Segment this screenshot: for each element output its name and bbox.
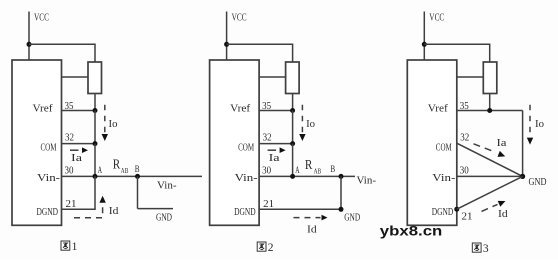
svg-text:30: 30 xyxy=(262,166,271,177)
current arrow Io dashed (fig2) xyxy=(301,105,303,133)
svg-text:Ia: Ia xyxy=(71,153,83,164)
pin 32 lead (fig2) xyxy=(259,143,293,145)
wire node pin32 to node A (fig2) xyxy=(292,144,294,177)
svg-text:VCC: VCC xyxy=(429,12,444,23)
wire VCC supply lead (fig1) xyxy=(28,12,30,61)
svg-text:35: 35 xyxy=(262,101,271,112)
current arrow Id dashed (fig2) xyxy=(294,217,321,219)
svg-text:32: 32 xyxy=(65,133,74,144)
svg-text:32: 32 xyxy=(460,133,469,144)
IC block U1 (fig1) xyxy=(12,60,62,225)
svg-text:R: R xyxy=(113,157,121,172)
pin 35 lead (fig1) xyxy=(62,110,96,112)
wire IC to resistor left (fig2) xyxy=(259,76,286,78)
svg-text:A: A xyxy=(295,166,299,176)
caption fig1 xyxy=(61,241,70,250)
IC block U2 (fig2) xyxy=(210,60,260,225)
svg-text:Vin-: Vin- xyxy=(37,173,61,184)
DGND pin dot (fig3) xyxy=(454,207,459,212)
wire node pin35 to pin32 (fig2) xyxy=(292,111,294,144)
svg-text:COM: COM xyxy=(436,142,452,153)
svg-text:21: 21 xyxy=(462,212,473,223)
svg-text:Vin-: Vin- xyxy=(357,176,377,187)
GND node dot (fig3) xyxy=(520,174,525,179)
wire IC to resistor left (fig1) xyxy=(62,76,89,78)
svg-text:AB: AB xyxy=(121,166,129,175)
pin 32 diagonal wire to GND (fig3) xyxy=(457,143,522,176)
svg-text:Vref: Vref xyxy=(230,104,251,115)
svg-text:Vin-: Vin- xyxy=(432,173,456,184)
resistor R1 (fig1) xyxy=(88,62,102,94)
wire VCC supply lead (fig2) xyxy=(226,12,228,61)
svg-text:AB: AB xyxy=(314,167,322,176)
svg-text:35: 35 xyxy=(460,101,469,112)
pin 32 lead (fig1) xyxy=(62,143,96,145)
svg-text:21: 21 xyxy=(263,199,274,210)
pin 35 lead (fig2) xyxy=(259,110,293,112)
right rail wire down to GND (fig3) xyxy=(522,111,524,177)
svg-text:VCC: VCC xyxy=(232,12,247,23)
junction dot resistor node (fig3) xyxy=(487,108,492,113)
svg-text:30: 30 xyxy=(460,166,469,177)
svg-text:DGND: DGND xyxy=(432,207,454,218)
junction dot pin 35 node (fig1) xyxy=(93,108,98,113)
svg-text:B: B xyxy=(330,165,335,175)
svg-text:DGND: DGND xyxy=(234,207,256,218)
wire resistor bottom to pin 35 (fig1) xyxy=(94,94,96,111)
node A dot (fig1) xyxy=(93,174,98,179)
current arrow Io dashed (fig1) xyxy=(104,105,106,133)
svg-text:GND: GND xyxy=(344,213,360,224)
svg-text:VCC: VCC xyxy=(34,12,49,23)
svg-text:Vref: Vref xyxy=(428,104,449,115)
svg-text:ybx8.cn: ybx8.cn xyxy=(380,223,443,238)
svg-text:GND: GND xyxy=(156,213,172,224)
wire node B down (fig1) xyxy=(137,176,139,208)
svg-text:35: 35 xyxy=(65,101,74,112)
svg-text:Io: Io xyxy=(109,119,118,130)
svg-text:Ia: Ia xyxy=(497,138,508,149)
svg-text:30: 30 xyxy=(65,166,74,177)
wire to GND stub (fig1) xyxy=(138,208,174,210)
svg-text:21: 21 xyxy=(66,199,77,210)
wire node A down to pin 21 (fig1) xyxy=(94,176,96,209)
wire resistor bottom to pin 35 (fig3) xyxy=(489,94,491,111)
wire node pin32 to node A (fig1) xyxy=(94,144,96,177)
node B dot (fig2) xyxy=(339,174,344,179)
wire IC to resistor left (fig3) xyxy=(457,76,484,78)
wire resistor bottom to pin 35 (fig2) xyxy=(292,94,294,111)
pin 30 lead and R_AB wire (fig1) xyxy=(62,175,203,177)
GND node dot (fig2) xyxy=(339,207,344,212)
svg-text:Io: Io xyxy=(306,119,315,130)
wire VCC to resistor top (fig1) xyxy=(29,44,95,62)
svg-text:Vin-: Vin- xyxy=(235,173,259,184)
svg-text:Id: Id xyxy=(498,209,508,220)
svg-text:Id: Id xyxy=(307,225,317,236)
svg-text:Vin-: Vin- xyxy=(157,180,177,191)
caption fig3 xyxy=(472,243,481,252)
svg-text:A: A xyxy=(98,166,102,176)
wire node pin35 to pin32 (fig1) xyxy=(94,111,96,144)
wire VCC to resistor top (fig3) xyxy=(424,44,489,62)
current arrow Ia dashed (fig1) xyxy=(70,149,79,151)
svg-text:B: B xyxy=(135,165,140,175)
resistor R3 (fig3) xyxy=(483,62,497,94)
IC block U3 (fig3) xyxy=(407,60,457,225)
caption fig2 xyxy=(257,242,266,251)
current arrow Io dashed (fig3) xyxy=(529,105,531,137)
pin 21 lead (fig1) xyxy=(62,208,96,210)
current arrow Ia dashed (fig3) xyxy=(474,144,497,153)
svg-text:DGND: DGND xyxy=(37,207,59,218)
svg-text:COM: COM xyxy=(41,142,57,153)
svg-text:COM: COM xyxy=(238,142,254,153)
svg-text:3: 3 xyxy=(483,243,489,255)
pin 30 lead to GND node (fig3) xyxy=(457,175,523,177)
junction dot VCC node (fig2) xyxy=(224,42,229,47)
junction dot pin 32 node (fig2) xyxy=(290,141,295,146)
pin 21 lead to GND node (fig2) xyxy=(259,208,341,210)
junction dot pin 35 node (fig2) xyxy=(290,108,295,113)
svg-text:32: 32 xyxy=(263,133,272,144)
svg-text:Io: Io xyxy=(535,119,544,130)
svg-text:GND: GND xyxy=(529,177,547,188)
svg-text:R: R xyxy=(305,157,313,172)
node A dot (fig2) xyxy=(290,174,295,179)
pin 35 lead to right rail (fig3) xyxy=(457,110,523,112)
pin 30 lead and R_AB wire (fig2) xyxy=(259,175,355,177)
wire VCC supply lead (fig3) xyxy=(423,12,425,61)
current arrow Id dashed (fig3) xyxy=(482,204,498,211)
junction dot VCC node (fig1) xyxy=(27,42,32,47)
junction dot pin 32 node (fig1) xyxy=(93,141,98,146)
svg-text:Id: Id xyxy=(109,206,119,217)
current arrow Id dashed (fig1) xyxy=(74,200,103,218)
node B dot (fig1) xyxy=(135,174,140,179)
svg-text:Ia: Ia xyxy=(269,153,281,164)
svg-text:2: 2 xyxy=(268,242,274,254)
wire node B down to GND (fig2) xyxy=(340,176,342,209)
svg-text:Vref: Vref xyxy=(33,104,54,115)
pin 21 diagonal wire to GND (fig3) xyxy=(457,176,523,209)
resistor R2 (fig2) xyxy=(286,62,300,94)
junction dot VCC node (fig3) xyxy=(422,42,427,47)
svg-text:1: 1 xyxy=(72,241,78,253)
wire VCC to resistor top (fig2) xyxy=(227,44,293,62)
current arrow Ia dashed (fig2) xyxy=(268,149,277,151)
